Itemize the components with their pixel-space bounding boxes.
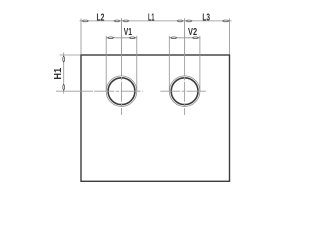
- arrowhead lens H1 bottom: [63, 84, 65, 90]
- arrowhead lens V2 right: [193, 37, 199, 39]
- part outline rectangle: [81, 55, 230, 181]
- hole 2 outer thin circle: [169, 76, 200, 107]
- arrowhead lens L1 right: [177, 20, 183, 22]
- hole 1 outer thin circle: [106, 76, 137, 107]
- hole 2 drill wall left / V2 extension line: [168, 36, 170, 91]
- hole 1 horizontal centerline: [94, 90, 143, 92]
- hole 2 horizontal centerline: [160, 90, 206, 92]
- arrowhead lens L3 right: [223, 20, 229, 22]
- L right extension line: [229, 19, 231, 55]
- H1 dimension line: [63, 53, 65, 94]
- hole 1 drill wall left / V1 extension line: [105, 36, 107, 91]
- svg-text:V1: V1: [124, 27, 132, 38]
- svg-text:L2: L2: [96, 12, 104, 23]
- arrowhead lens V1 left: [108, 37, 114, 39]
- hole 2 drill wall right / V2 extension line: [199, 36, 201, 91]
- svg-text:V2: V2: [188, 27, 197, 38]
- L dimension line: [80, 20, 232, 22]
- arrowhead lens V2 left: [171, 37, 177, 39]
- arrowhead lens V1 right: [129, 37, 135, 39]
- svg-text:L1: L1: [148, 12, 155, 23]
- arrowhead lens L2 left: [82, 20, 88, 22]
- hole 1 main circle: [108, 78, 135, 105]
- arrowhead lens L3 left: [186, 20, 192, 22]
- H1 bottom extension line: [56, 90, 93, 92]
- svg-text:H1: H1: [53, 68, 64, 80]
- hole 2 centerline extension to L dimension: [184, 18, 186, 55]
- hole 2 main circle: [171, 78, 198, 105]
- hole 1 drill wall right / V1 extension line: [136, 36, 138, 91]
- arrowhead lens H1 top: [63, 56, 65, 62]
- hole 2 vertical centerline: [184, 56, 186, 116]
- arrowhead lens L1 left: [123, 20, 129, 22]
- V2 dimension line: [169, 37, 200, 39]
- arrowhead lens L2 right: [114, 20, 120, 22]
- H1 top extension line: [60, 54, 81, 56]
- hole 1 centerline extension to L dimension: [121, 18, 123, 55]
- svg-text:L3: L3: [202, 12, 210, 23]
- hole 1 vertical centerline: [121, 56, 123, 116]
- V1 dimension line: [106, 37, 137, 39]
- L left extension line: [80, 19, 82, 55]
